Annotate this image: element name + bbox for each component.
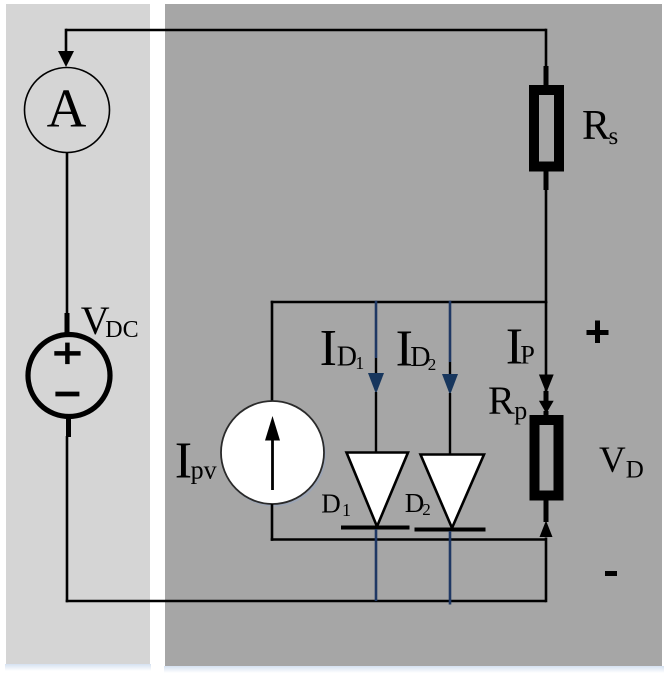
current source Ipv bbox=[221, 401, 326, 507]
svg-text:1: 1 bbox=[355, 353, 364, 373]
svg-text:1: 1 bbox=[342, 500, 351, 520]
label ID2 bbox=[396, 321, 437, 378]
resistor Rs bbox=[534, 90, 559, 167]
wire diode D2 anode upper bbox=[449, 301, 452, 375]
svg-text:I: I bbox=[175, 433, 192, 490]
wire diode D1 anode upper bbox=[375, 301, 378, 374]
wire diode D2 cathode bbox=[449, 531, 452, 605]
svg-text:V: V bbox=[599, 440, 626, 481]
svg-text:p: p bbox=[514, 396, 527, 425]
svg-text:R: R bbox=[582, 103, 610, 149]
wire node to Rp bbox=[545, 302, 548, 416]
wire inner left bbox=[271, 301, 274, 402]
svg-text:P: P bbox=[520, 341, 534, 370]
label IP bbox=[506, 319, 535, 376]
wire Rs to node bbox=[544, 172, 549, 304]
svg-text:R: R bbox=[488, 378, 515, 423]
arrow ID1 bbox=[368, 373, 384, 394]
svg-text:s: s bbox=[609, 123, 619, 150]
svg-text:D: D bbox=[321, 489, 341, 519]
arrowhead up into Rp bbox=[540, 521, 553, 538]
diode D2 bbox=[415, 455, 486, 530]
wire bottom outer bbox=[66, 600, 546, 603]
label Rp bbox=[488, 378, 527, 425]
svg-text:DC: DC bbox=[105, 317, 138, 343]
wire inner bottom bbox=[271, 538, 546, 541]
label VD bbox=[599, 440, 644, 484]
label VDC bbox=[81, 298, 139, 343]
wire node to bottom right bbox=[545, 538, 548, 603]
arrow ID2 bbox=[442, 374, 458, 395]
arrowhead into ammeter bbox=[58, 51, 74, 67]
svg-text:D: D bbox=[405, 488, 425, 518]
voltage source VDC bbox=[28, 335, 110, 417]
plus terminal label bbox=[587, 321, 609, 344]
wire top-left drop into ammeter bbox=[65, 29, 68, 52]
svg-text:I: I bbox=[320, 320, 337, 377]
wire top horizontal bbox=[66, 29, 546, 32]
svg-text:A: A bbox=[47, 78, 87, 139]
label ID1 bbox=[320, 320, 365, 377]
wire diode D2 anode lower bbox=[449, 393, 451, 455]
wire ammeter to VDC source bbox=[66, 153, 69, 337]
wire inner top bbox=[271, 301, 548, 304]
label Ipv bbox=[175, 433, 217, 490]
label D2 bbox=[405, 488, 431, 519]
svg-text:D: D bbox=[337, 342, 357, 373]
minus terminal label bbox=[605, 571, 617, 576]
wire diode D1 anode lower bbox=[375, 392, 377, 453]
svg-text:2: 2 bbox=[422, 500, 431, 519]
label Rs bbox=[582, 103, 618, 150]
label D1 bbox=[321, 489, 351, 521]
svg-text:pv: pv bbox=[191, 456, 217, 485]
wire below Rp bbox=[544, 500, 549, 522]
resistor Rp bbox=[535, 420, 559, 496]
svg-text:D: D bbox=[626, 457, 644, 484]
svg-text:2: 2 bbox=[428, 355, 437, 374]
diode D1 bbox=[341, 453, 410, 528]
wire VDC source to bottom bbox=[67, 416, 69, 602]
wire right vertical into Rs bbox=[545, 29, 548, 86]
wire diode D1 cathode bbox=[375, 529, 378, 601]
arrow IP double arrowheads bbox=[539, 375, 554, 418]
wire Ipv bottom bbox=[271, 504, 274, 541]
ammeter A bbox=[25, 68, 110, 153]
